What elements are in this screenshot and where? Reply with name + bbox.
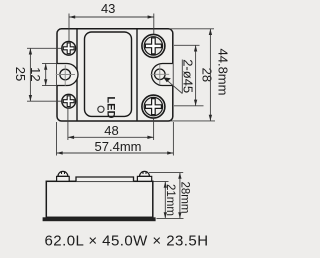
right mounting hole	[150, 65, 169, 85]
LED indicator circle	[98, 106, 104, 112]
left mounting hole	[56, 65, 75, 86]
side view middle raised cover	[76, 177, 134, 181]
screw terminal bottom-left	[62, 94, 76, 108]
screw terminal top-right (large)	[142, 34, 165, 57]
svg-text:LED: LED	[104, 96, 116, 118]
right mounting boss	[152, 64, 173, 86]
dimension 28 right	[174, 45, 214, 106]
svg-text:12: 12	[28, 67, 43, 81]
svg-text:57.4mm: 57.4mm	[95, 139, 142, 154]
side view base plate	[43, 217, 156, 221]
screw terminal top-left	[62, 41, 76, 55]
dimension 25 left	[13, 48, 61, 101]
svg-text:28: 28	[199, 68, 214, 82]
dimension 12 left	[28, 64, 57, 86]
overall dimensions caption	[45, 233, 209, 250]
left terminal strip divider	[76, 29, 78, 121]
right terminal strip divider	[136, 29, 138, 121]
dimension 28mm side	[149, 173, 191, 219]
svg-text:43: 43	[101, 1, 115, 16]
dimension 44.8mm right	[169, 29, 230, 121]
leader 2-o45 callout	[163, 59, 195, 93]
svg-text:21mm: 21mm	[164, 184, 176, 216]
svg-text:44.8mm: 44.8mm	[215, 49, 230, 96]
svg-text:62.0L × 45.0W × 23.5H: 62.0L × 45.0W × 23.5H	[45, 233, 209, 250]
dimension 21mm side	[154, 182, 184, 219]
cover rectangle	[85, 32, 132, 116]
svg-text:48: 48	[104, 123, 118, 138]
side view right terminal bump	[137, 171, 151, 181]
dimension 48 bottom	[68, 108, 154, 140]
body outline top view	[57, 29, 173, 121]
svg-text:28mm: 28mm	[179, 182, 191, 214]
dimension 43 top	[69, 1, 154, 41]
side view left terminal bump	[57, 171, 70, 181]
left mounting boss	[57, 64, 78, 86]
side view body	[46, 181, 153, 217]
dimension 57.4mm bottom	[57, 122, 174, 156]
screw terminal bottom-right (large)	[142, 95, 165, 118]
svg-text:2-ø45: 2-ø45	[180, 59, 195, 93]
svg-text:25: 25	[13, 67, 28, 81]
LED label	[104, 96, 116, 118]
